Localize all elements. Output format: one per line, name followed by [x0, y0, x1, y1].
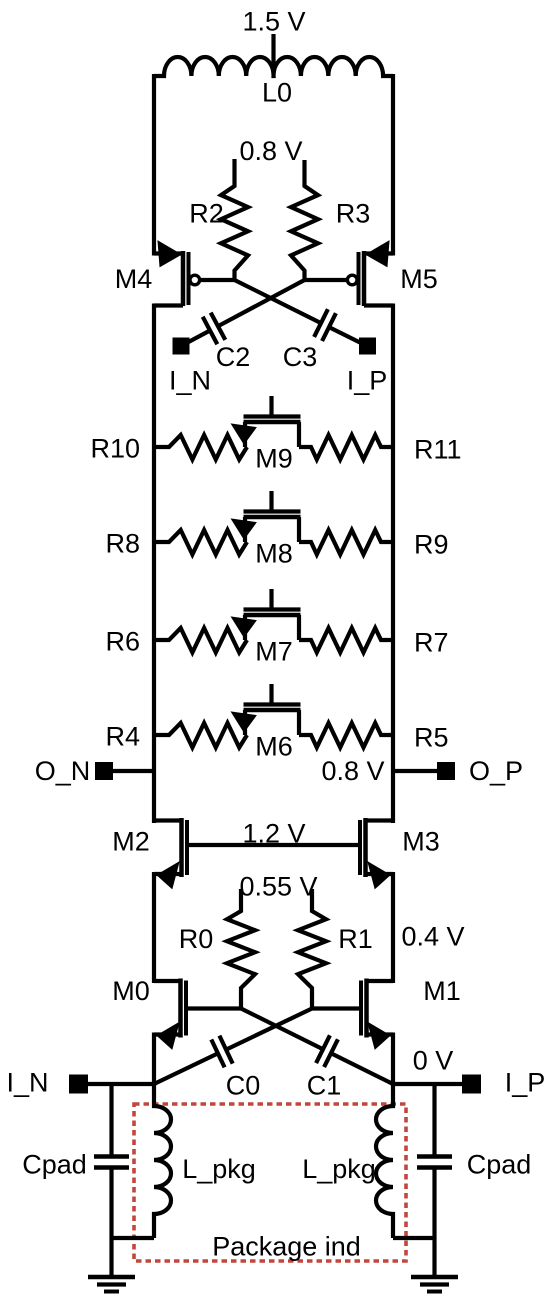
- wire supply tap: [271, 34, 275, 74]
- svg-text:1.5 V: 1.5 V: [242, 7, 305, 37]
- dashed box Package ind: [134, 1104, 406, 1261]
- inductor L0: [154, 57, 393, 76]
- ground (left): [88, 1275, 135, 1280]
- transistor M7: [269, 589, 273, 610]
- svg-text:R5: R5: [414, 723, 449, 753]
- resistor R1: [298, 889, 326, 1009]
- pad I_P (top): [359, 338, 376, 355]
- svg-text:I_P: I_P: [505, 1068, 546, 1098]
- wire right rail middle: [391, 304, 395, 824]
- inductor L_pkg (left): [154, 1082, 171, 1238]
- svg-text:0.8 V: 0.8 V: [239, 136, 302, 166]
- resistor R0: [227, 889, 255, 1009]
- svg-text:C3: C3: [283, 342, 318, 372]
- transistor M1: [367, 979, 394, 983]
- svg-text:R7: R7: [414, 628, 449, 658]
- svg-text:M0: M0: [112, 976, 150, 1006]
- resistor R4: [154, 723, 247, 748]
- svg-text:R2: R2: [189, 199, 224, 229]
- inductor L_pkg (right): [376, 1082, 393, 1238]
- wire I_P: [393, 1082, 462, 1086]
- svg-text:Cpad: Cpad: [22, 1150, 87, 1180]
- svg-text:0.8 V: 0.8 V: [321, 756, 384, 786]
- svg-text:0.4 V: 0.4 V: [401, 922, 464, 952]
- wire 1.2 V gate bias: [187, 843, 360, 847]
- resistor R3: [291, 160, 318, 280]
- svg-text:R8: R8: [105, 529, 140, 559]
- wire O_P: [393, 769, 437, 773]
- svg-text:M5: M5: [400, 264, 438, 294]
- svg-text:I_P: I_P: [347, 366, 388, 396]
- ground (right): [411, 1275, 458, 1280]
- svg-text:O_N: O_N: [35, 756, 91, 786]
- wire right rail (0.4 V segment): [391, 872, 395, 983]
- svg-text:M3: M3: [402, 827, 440, 857]
- svg-text:I_N: I_N: [6, 1068, 48, 1098]
- transistor M5: [364, 251, 393, 255]
- svg-text:R1: R1: [338, 924, 373, 954]
- wire right rail to input node: [391, 1033, 395, 1087]
- wire O_N: [113, 769, 154, 773]
- capacitor C0 (I_N to M1 gate): [226, 1009, 312, 1050]
- transistor M9: [269, 396, 273, 417]
- svg-text:L_pkg: L_pkg: [302, 1154, 376, 1184]
- wire M0 gate: [186, 1006, 241, 1010]
- svg-text:R10: R10: [90, 434, 140, 464]
- resistor R9: [299, 530, 393, 555]
- pad I_N (bottom): [69, 1075, 88, 1094]
- resistor R7: [299, 628, 393, 653]
- svg-text:M4: M4: [115, 264, 153, 294]
- transistor M2: [154, 818, 182, 822]
- svg-text:Package ind: Package ind: [212, 1232, 361, 1262]
- wire package ground (right): [393, 1236, 435, 1240]
- capacitor C2 (I_N to M5 gate): [218, 280, 305, 326]
- resistor R6: [154, 628, 247, 653]
- svg-text:0.55 V: 0.55 V: [239, 872, 317, 902]
- pad O_N: [95, 762, 113, 780]
- svg-text:L_pkg: L_pkg: [182, 1154, 256, 1184]
- transistor M4: [154, 251, 183, 255]
- svg-text:Cpad: Cpad: [467, 1150, 532, 1180]
- svg-text:1.2 V: 1.2 V: [242, 819, 305, 849]
- svg-text:M2: M2: [112, 827, 150, 857]
- wire left rail to input node: [152, 1033, 156, 1087]
- transistor M3: [366, 818, 394, 822]
- resistor R8: [154, 530, 247, 555]
- wire package ground (left): [112, 1236, 155, 1240]
- wire left rail top: [152, 74, 156, 256]
- svg-text:M1: M1: [423, 976, 461, 1006]
- capacitor Cpad (left): [109, 1084, 113, 1157]
- svg-text:C2: C2: [216, 342, 251, 372]
- svg-text:M9: M9: [255, 444, 293, 474]
- resistor R10: [154, 435, 247, 460]
- wire M4 gate: [200, 278, 235, 282]
- transistor M8: [269, 491, 273, 512]
- transistor M6: [269, 684, 273, 705]
- svg-text:O_P: O_P: [469, 756, 523, 786]
- svg-text:M7: M7: [255, 637, 293, 667]
- capacitor C1 (I_P to M0 gate): [241, 1009, 323, 1050]
- svg-text:L0: L0: [262, 78, 292, 108]
- capacitor C3 (I_P to M4 gate): [235, 280, 322, 323]
- wire left rail (0.4 V segment): [152, 872, 156, 983]
- svg-text:R6: R6: [105, 627, 140, 657]
- svg-text:C0: C0: [226, 1071, 261, 1101]
- wire M5 gate: [305, 278, 348, 282]
- pad I_P (bottom): [462, 1075, 481, 1094]
- svg-text:C1: C1: [307, 1071, 342, 1101]
- resistor R5: [299, 723, 393, 748]
- pad I_N (top): [173, 338, 190, 355]
- wire left rail middle: [152, 304, 156, 824]
- svg-text:M8: M8: [255, 539, 293, 569]
- svg-text:I_N: I_N: [169, 366, 211, 396]
- svg-text:M6: M6: [255, 732, 293, 762]
- wire right rail top: [391, 74, 395, 256]
- wire I_N: [88, 1082, 154, 1086]
- pad O_P: [437, 762, 455, 780]
- svg-text:R9: R9: [414, 530, 449, 560]
- resistor R2: [221, 159, 248, 280]
- svg-text:0 V: 0 V: [413, 1046, 454, 1076]
- svg-text:R3: R3: [336, 199, 371, 229]
- svg-text:R0: R0: [179, 924, 214, 954]
- svg-text:R4: R4: [105, 722, 140, 752]
- transistor M0: [154, 979, 181, 983]
- svg-text:R11: R11: [414, 435, 462, 465]
- wire M1 gate: [312, 1006, 361, 1010]
- capacitor Cpad (right): [432, 1084, 436, 1157]
- resistor R11: [299, 435, 393, 460]
